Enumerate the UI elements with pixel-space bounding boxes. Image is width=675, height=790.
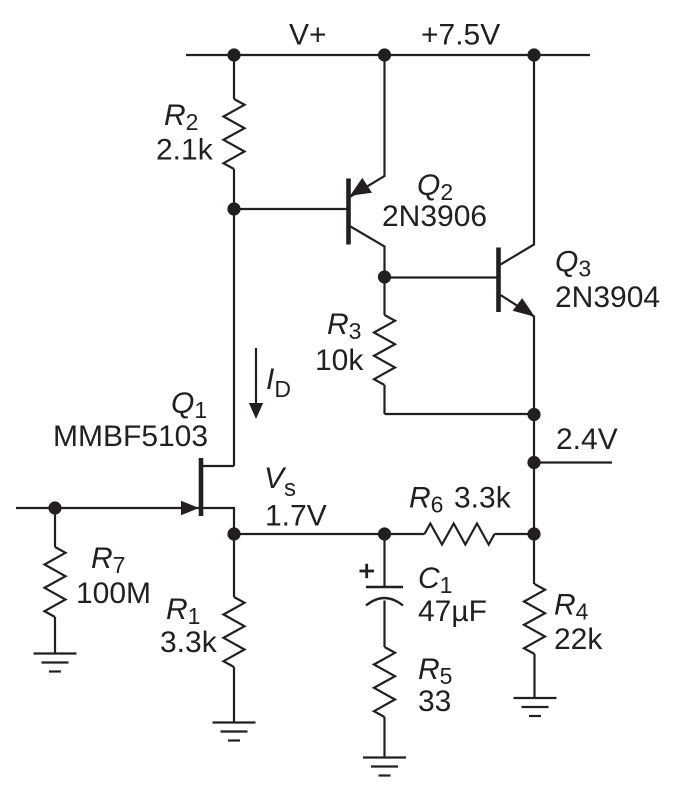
svg-text:22k: 22k <box>554 623 603 656</box>
svg-text:100M: 100M <box>76 577 151 610</box>
wire R3 to Q3 emitter column <box>385 413 535 415</box>
wire C1 to R5 <box>383 601 385 648</box>
node R2/Q2-base/Q1-drain junction <box>227 202 240 215</box>
resistor R6 <box>425 524 495 545</box>
svg-text:10k: 10k <box>315 344 364 377</box>
wire R7 top <box>54 508 56 547</box>
wire 2.4V tap <box>534 461 612 463</box>
wire R6 to output node <box>495 533 535 535</box>
svg-text:3.3k: 3.3k <box>454 482 512 515</box>
svg-text:R7: R7 <box>91 542 125 578</box>
wire R2 bottom to node <box>233 169 235 209</box>
svg-text:R1: R1 <box>166 593 200 629</box>
wire R2 top <box>233 55 235 99</box>
node Q2-collector/Q3-base/R3 <box>378 270 391 283</box>
transistor Q3 <box>499 55 535 415</box>
resistor R5 <box>374 647 395 717</box>
svg-text:ID: ID <box>266 363 291 402</box>
wire R1 top <box>233 534 235 597</box>
svg-text:R2: R2 <box>164 99 198 135</box>
wire R4 top <box>533 534 535 584</box>
svg-text:R4: R4 <box>554 589 589 625</box>
wire R4 bottom <box>533 654 535 698</box>
svg-text:2N3904: 2N3904 <box>555 281 660 314</box>
wire input to Q1 gate <box>16 507 199 509</box>
svg-text:3.3k: 3.3k <box>160 626 218 659</box>
wire R1 bottom <box>233 667 235 723</box>
wire Q3 base <box>385 276 497 278</box>
wire Q2 base <box>234 208 347 210</box>
ground R5 <box>363 758 406 776</box>
svg-text:47µF: 47µF <box>418 595 487 628</box>
wire node to R3 top <box>383 277 385 315</box>
wire R5 bottom <box>383 717 385 758</box>
capacitor C1 <box>366 587 403 606</box>
plus sign of C1 <box>360 564 375 578</box>
svg-text:Q3: Q3 <box>555 246 591 282</box>
current arrow I_D <box>249 348 263 419</box>
svg-text:R6: R6 <box>409 482 443 518</box>
ground R7 <box>34 654 77 672</box>
resistor R2 <box>224 99 245 169</box>
transistor Q2 <box>349 55 385 277</box>
node V+ rail right <box>527 48 540 61</box>
svg-text:Vs: Vs <box>264 462 296 502</box>
svg-text:V+: V+ <box>289 19 327 52</box>
resistor R1 <box>224 597 245 667</box>
svg-text:+7.5V: +7.5V <box>421 19 500 52</box>
svg-text:MMBF5103: MMBF5103 <box>53 420 208 453</box>
svg-text:1.7V: 1.7V <box>265 500 327 533</box>
wire R7 bottom <box>54 617 56 654</box>
node input/R7 junction <box>48 501 61 514</box>
svg-text:2.1k: 2.1k <box>156 134 214 167</box>
wire R3 bottom <box>383 385 385 414</box>
svg-text:R5: R5 <box>418 653 452 689</box>
resistor R3 <box>374 315 395 385</box>
wire V+ rail <box>186 54 590 56</box>
node V+ rail left <box>227 48 240 61</box>
wire node to Q1 drain <box>233 209 235 466</box>
ground R1 <box>213 723 256 741</box>
svg-text:2.4V: 2.4V <box>556 423 618 456</box>
svg-text:33: 33 <box>418 685 451 718</box>
svg-text:2N3906: 2N3906 <box>382 200 487 233</box>
wire C1 top <box>383 534 385 587</box>
svg-text:C1: C1 <box>418 562 452 598</box>
node 2.4V tap <box>527 456 540 469</box>
ground R4 <box>514 698 557 716</box>
resistor R4 <box>524 584 545 654</box>
transistor Q1 (JFET) <box>181 458 234 534</box>
node Q1-source/R1 junction <box>227 527 240 540</box>
resistor R7 <box>45 547 66 617</box>
node R6/R4/output junction <box>527 527 540 540</box>
node C1 junction <box>378 527 391 540</box>
svg-text:R3: R3 <box>327 308 361 344</box>
wire Q1 source row <box>234 533 425 535</box>
svg-text:Q1: Q1 <box>171 387 207 423</box>
node R3/Q3-emitter junction <box>527 408 540 421</box>
wire Q3 emitter column down <box>533 414 535 534</box>
node V+ rail middle <box>378 48 391 61</box>
